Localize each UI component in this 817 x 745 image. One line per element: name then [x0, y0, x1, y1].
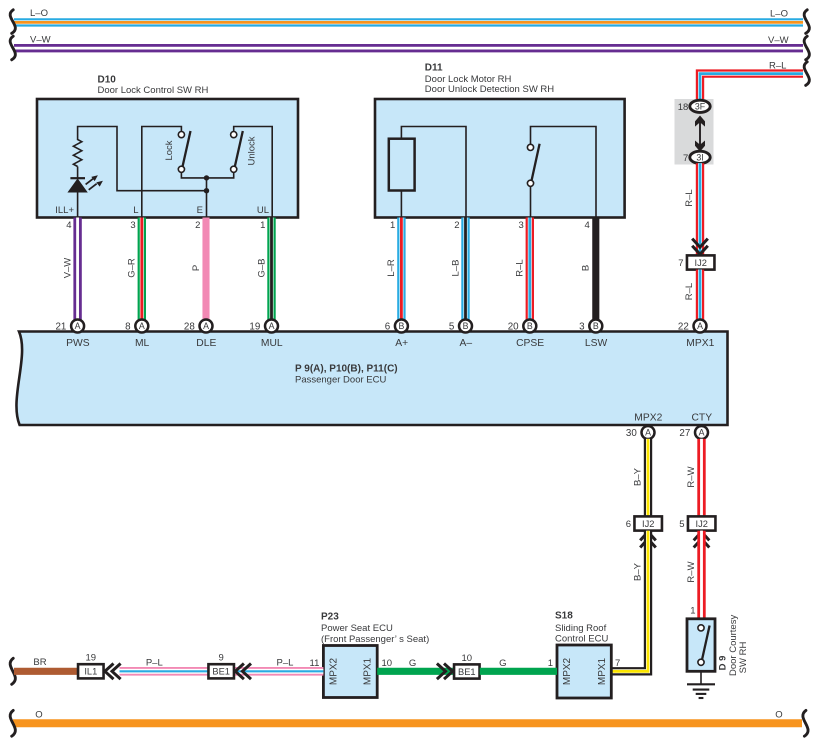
connector arrows into BE1 (pointing left)	[235, 664, 251, 680]
wire R-L from D11 pin3 to CPSE	[526, 218, 534, 320]
svg-text:R–L: R–L	[684, 283, 695, 300]
svg-text:10: 10	[462, 653, 473, 664]
svg-text:P 9(A), P10(B), P11(C): P 9(A), P10(B), P11(C)	[295, 364, 398, 375]
svg-text:BR: BR	[33, 657, 46, 668]
connector arrows into BE1 (pointing right)	[437, 664, 453, 680]
terminal 8(A) ML	[125, 320, 148, 333]
svg-text:3F: 3F	[695, 102, 706, 112]
svg-text:(Front Passenger’ s Seat): (Front Passenger’ s Seat)	[321, 634, 429, 645]
wire L-R from D11 pin1 to A+	[397, 218, 405, 320]
svg-text:Door Lock Control SW RH: Door Lock Control SW RH	[98, 85, 209, 96]
svg-text:MUL: MUL	[261, 338, 283, 349]
svg-text:5: 5	[679, 519, 684, 530]
svg-text:ML: ML	[135, 338, 150, 349]
wire P from D10 pin2 to DLE	[202, 218, 209, 320]
break symbol right of R-L wire	[804, 62, 809, 86]
svg-text:G: G	[499, 658, 506, 669]
wire L branch inside D10	[142, 127, 182, 218]
terminal 20(B) CPSE	[508, 320, 537, 333]
connector arrows into IJ2 (pointing up)	[694, 532, 710, 548]
svg-text:6: 6	[626, 519, 631, 530]
svg-text:P–L: P–L	[277, 658, 294, 669]
svg-text:Sliding Roof: Sliding Roof	[555, 623, 607, 634]
svg-text:21: 21	[55, 322, 66, 333]
svg-text:R–L: R–L	[684, 189, 695, 206]
svg-text:ILL+: ILL+	[55, 205, 74, 216]
break symbol left of BR wire	[10, 658, 15, 684]
junction connector IJ2 upper	[678, 255, 714, 269]
svg-text:IL1: IL1	[84, 667, 97, 677]
motor winding inside D11	[389, 127, 466, 218]
wire B-Y from IJ2 to S18 MPX1	[611, 531, 648, 672]
wire G-R from D10 pin3 to ML	[138, 218, 146, 320]
svg-text:10: 10	[382, 658, 393, 669]
svg-text:Power Seat ECU: Power Seat ECU	[321, 623, 393, 634]
node E junction dots inside D10	[204, 175, 209, 217]
svg-text:9: 9	[219, 653, 224, 664]
component box D9 Door Courtesy SW RH	[687, 619, 715, 672]
arrow between 3F and 3I	[695, 116, 705, 152]
connector terminal 3F	[690, 100, 710, 112]
svg-text:A: A	[203, 321, 209, 331]
switch Unlock inside D10	[207, 127, 273, 218]
svg-text:IJ2: IJ2	[695, 519, 707, 529]
LED D10 illumination diode	[68, 167, 86, 193]
svg-text:L–R: L–R	[386, 259, 397, 277]
svg-text:P: P	[191, 265, 202, 271]
terminal 28(A) DLE	[184, 320, 213, 333]
connector block 3F/3I gray background	[675, 99, 714, 165]
switch inside D9	[698, 625, 710, 666]
svg-text:D 9: D 9	[718, 656, 729, 671]
wire G from P23 pin10 to BE1	[377, 668, 454, 675]
svg-text:A: A	[699, 428, 705, 438]
svg-text:MPX2: MPX2	[562, 657, 573, 685]
svg-text:B: B	[463, 321, 469, 331]
svg-text:PWS: PWS	[66, 338, 90, 349]
svg-text:3: 3	[579, 322, 585, 333]
svg-text:Lock: Lock	[164, 140, 175, 160]
wire ILL+ branch inside D10	[77, 192, 79, 218]
svg-text:G–R: G–R	[127, 258, 138, 278]
wire R-L from IJ2 to MPX1	[696, 270, 704, 320]
svg-text:19: 19	[249, 322, 260, 333]
svg-text:B: B	[398, 321, 404, 331]
wire B from D11 pin4 to LSW	[592, 218, 599, 320]
break symbol left of O wire	[10, 710, 15, 736]
svg-text:A: A	[697, 321, 703, 331]
svg-text:1: 1	[548, 658, 553, 669]
terminal 3(B) LSW	[579, 320, 602, 333]
svg-text:V–W: V–W	[768, 35, 789, 46]
component box D11	[375, 99, 625, 218]
svg-text:1: 1	[260, 220, 265, 231]
svg-text:MPX1: MPX1	[597, 657, 608, 685]
svg-text:4: 4	[585, 220, 590, 231]
svg-text:G–B: G–B	[256, 258, 267, 277]
wire R-L from top right to connector 3F	[700, 74, 803, 103]
svg-text:P–L: P–L	[146, 658, 163, 669]
svg-text:6: 6	[385, 322, 391, 333]
switch Lock inside D10	[178, 131, 206, 178]
svg-text:MPX2: MPX2	[329, 657, 340, 685]
svg-text:R–L: R–L	[515, 259, 526, 276]
svg-text:1: 1	[690, 606, 695, 617]
svg-text:D10: D10	[98, 75, 117, 86]
svg-text:1: 1	[390, 220, 395, 231]
wire V-W horizontal bus	[14, 44, 803, 52]
ECU box P9/P10/P11 Passenger Door ECU	[16, 332, 727, 426]
svg-text:3: 3	[130, 220, 135, 231]
junction connector BE1 right	[454, 664, 480, 678]
svg-text:5: 5	[449, 322, 455, 333]
svg-text:SW RH: SW RH	[738, 642, 749, 674]
component box P23 Power Seat ECU	[323, 646, 377, 698]
svg-text:27: 27	[679, 428, 690, 439]
svg-text:B: B	[593, 321, 599, 331]
svg-text:8: 8	[125, 322, 131, 333]
svg-text:DLE: DLE	[196, 338, 216, 349]
wire BR brown	[14, 668, 78, 675]
connector arrows into IJ2 (pointing down)	[692, 239, 708, 255]
svg-text:3: 3	[519, 220, 524, 231]
svg-text:L: L	[133, 205, 138, 216]
svg-text:MPX2: MPX2	[634, 413, 662, 424]
terminal 19(A) MUL	[249, 320, 278, 333]
svg-text:20: 20	[508, 322, 519, 333]
svg-text:2: 2	[195, 220, 200, 231]
break symbol right of O wire	[803, 710, 808, 736]
wire L-B from D11 pin2 to A-	[461, 218, 469, 320]
junction connector BE1 left	[208, 664, 234, 678]
wire V-W from D10 pin4 to PWS	[73, 218, 81, 320]
svg-text:B: B	[527, 321, 533, 331]
svg-text:BE1: BE1	[212, 667, 230, 677]
svg-text:LSW: LSW	[585, 338, 608, 349]
svg-text:18: 18	[678, 102, 689, 113]
terminal 22(A) MPX1	[678, 320, 707, 333]
terminal 21(A) PWS	[55, 320, 84, 333]
terminal 27(A) CTY	[679, 426, 708, 439]
svg-text:R–L: R–L	[769, 61, 786, 72]
svg-text:28: 28	[184, 322, 195, 333]
svg-text:IJ2: IJ2	[694, 258, 706, 268]
svg-text:7: 7	[678, 258, 683, 269]
svg-text:A: A	[139, 321, 145, 331]
wire R-W from CTY to IJ2	[697, 439, 705, 517]
svg-text:A: A	[269, 321, 275, 331]
svg-text:P23: P23	[321, 611, 339, 622]
junction connector IJ2 lower right	[679, 516, 715, 530]
svg-text:L–B: L–B	[450, 260, 461, 277]
svg-text:L–O: L–O	[770, 9, 788, 20]
resistor inside D10	[73, 127, 206, 191]
svg-text:7: 7	[615, 658, 620, 669]
svg-text:A–: A–	[459, 338, 472, 349]
wire R-L from 3I to IJ2	[696, 163, 704, 255]
connector terminal 3I	[690, 151, 710, 163]
wire R-W from IJ2 to D9	[697, 531, 705, 619]
svg-text:CTY: CTY	[691, 413, 712, 424]
wire P-L from IL1 to P23 pin11	[120, 667, 324, 676]
wire G-B from D10 pin1 to MUL	[267, 218, 275, 320]
terminal 5(B) A-	[449, 320, 472, 333]
terminal 6(B) A+	[385, 320, 408, 333]
svg-text:S18: S18	[555, 611, 573, 622]
svg-text:R–W: R–W	[686, 561, 697, 582]
svg-text:CPSE: CPSE	[516, 338, 544, 349]
svg-text:L–O: L–O	[30, 8, 48, 19]
LED emission arrows	[86, 175, 103, 190]
component box S18 Sliding Roof Control ECU	[557, 645, 611, 698]
break symbol right of V-W wire	[804, 36, 809, 60]
svg-text:BE1: BE1	[458, 667, 476, 677]
svg-text:G: G	[409, 658, 416, 669]
svg-text:O: O	[775, 709, 782, 720]
svg-text:MPX1: MPX1	[686, 338, 714, 349]
svg-text:B–Y: B–Y	[632, 562, 643, 581]
svg-text:B: B	[581, 265, 592, 271]
junction connector IJ2 lower left	[626, 516, 662, 530]
svg-text:30: 30	[626, 428, 637, 439]
svg-text:D11: D11	[425, 63, 443, 74]
svg-text:E: E	[197, 205, 203, 216]
svg-text:19: 19	[86, 653, 97, 664]
wire L-O horizontal bus	[14, 18, 803, 26]
wire B-Y from MPX2 to IJ2	[644, 439, 652, 517]
svg-text:IJ2: IJ2	[642, 519, 654, 529]
wire G from BE1 to S18 pin1	[480, 668, 557, 675]
svg-text:2: 2	[454, 220, 459, 231]
connector arrows into IL1 (pointing left)	[105, 664, 121, 680]
svg-text:V–W: V–W	[30, 35, 51, 46]
svg-text:UL: UL	[257, 205, 269, 216]
svg-text:Passenger Door ECU: Passenger Door ECU	[295, 375, 386, 386]
switch door unlock detection inside D11	[527, 127, 596, 218]
svg-text:A+: A+	[395, 338, 408, 349]
break symbol left of L-O wire	[10, 10, 15, 34]
wire R-L into 3F	[696, 100, 704, 103]
connector arrows into IJ2 (pointing up)	[640, 532, 656, 548]
svg-text:Unlock: Unlock	[246, 136, 257, 165]
svg-text:22: 22	[678, 322, 689, 333]
svg-text:Door Unlock Detection SW RH: Door Unlock Detection SW RH	[425, 84, 554, 95]
wire O orange bottom bus	[13, 719, 802, 727]
svg-text:7: 7	[683, 153, 688, 164]
component box D10	[37, 99, 298, 218]
svg-text:MPX1: MPX1	[363, 657, 374, 685]
svg-text:4: 4	[66, 220, 71, 231]
terminal 30(A) MPX2	[626, 426, 655, 439]
break symbol left of V-W wire	[10, 36, 15, 60]
svg-text:A: A	[75, 321, 81, 331]
svg-text:B–Y: B–Y	[632, 467, 643, 486]
svg-text:A: A	[645, 428, 651, 438]
svg-text:3I: 3I	[696, 153, 703, 163]
ground symbol under D9	[687, 671, 715, 698]
svg-text:R–W: R–W	[686, 466, 697, 487]
svg-text:V–W: V–W	[62, 258, 73, 279]
svg-text:O: O	[35, 709, 42, 720]
break symbol right of L-O wire	[804, 10, 809, 34]
svg-text:Control ECU: Control ECU	[555, 634, 608, 645]
junction connector IL1	[78, 664, 104, 678]
